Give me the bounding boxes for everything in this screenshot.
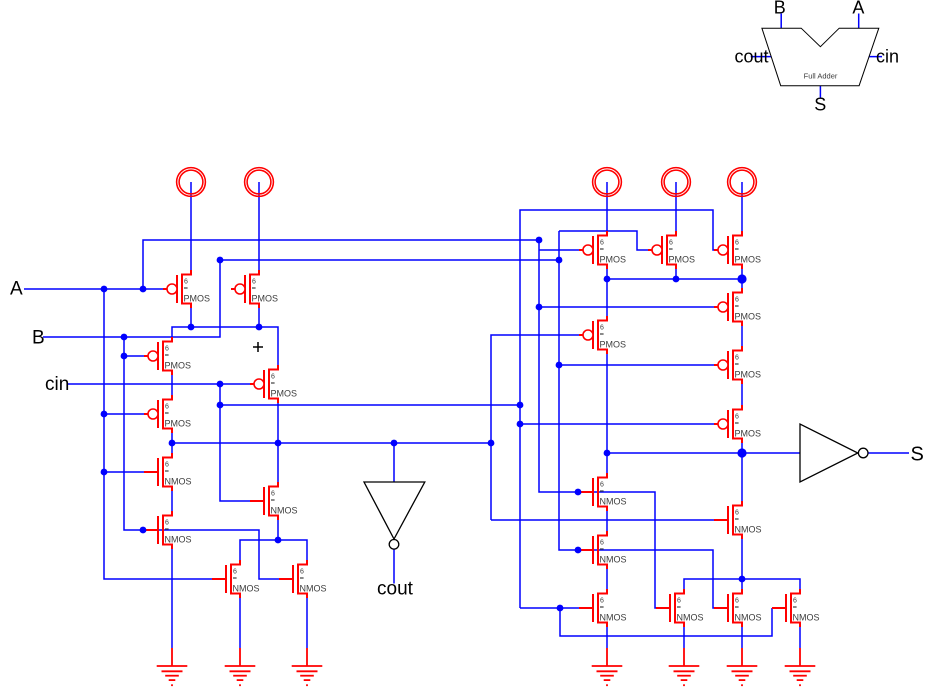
svg-text:Full Adder: Full Adder — [804, 72, 838, 81]
svg-text:S: S — [911, 444, 924, 466]
svg-text:A: A — [10, 279, 23, 300]
svg-text:cout: cout — [735, 47, 769, 67]
svg-text:cin: cin — [876, 47, 899, 67]
svg-text:A: A — [852, 0, 864, 17]
svg-text:S: S — [814, 95, 826, 115]
svg-text:cout: cout — [377, 579, 414, 600]
svg-text:cin: cin — [45, 374, 69, 395]
svg-text:B: B — [32, 328, 45, 349]
svg-text:B: B — [774, 0, 786, 17]
